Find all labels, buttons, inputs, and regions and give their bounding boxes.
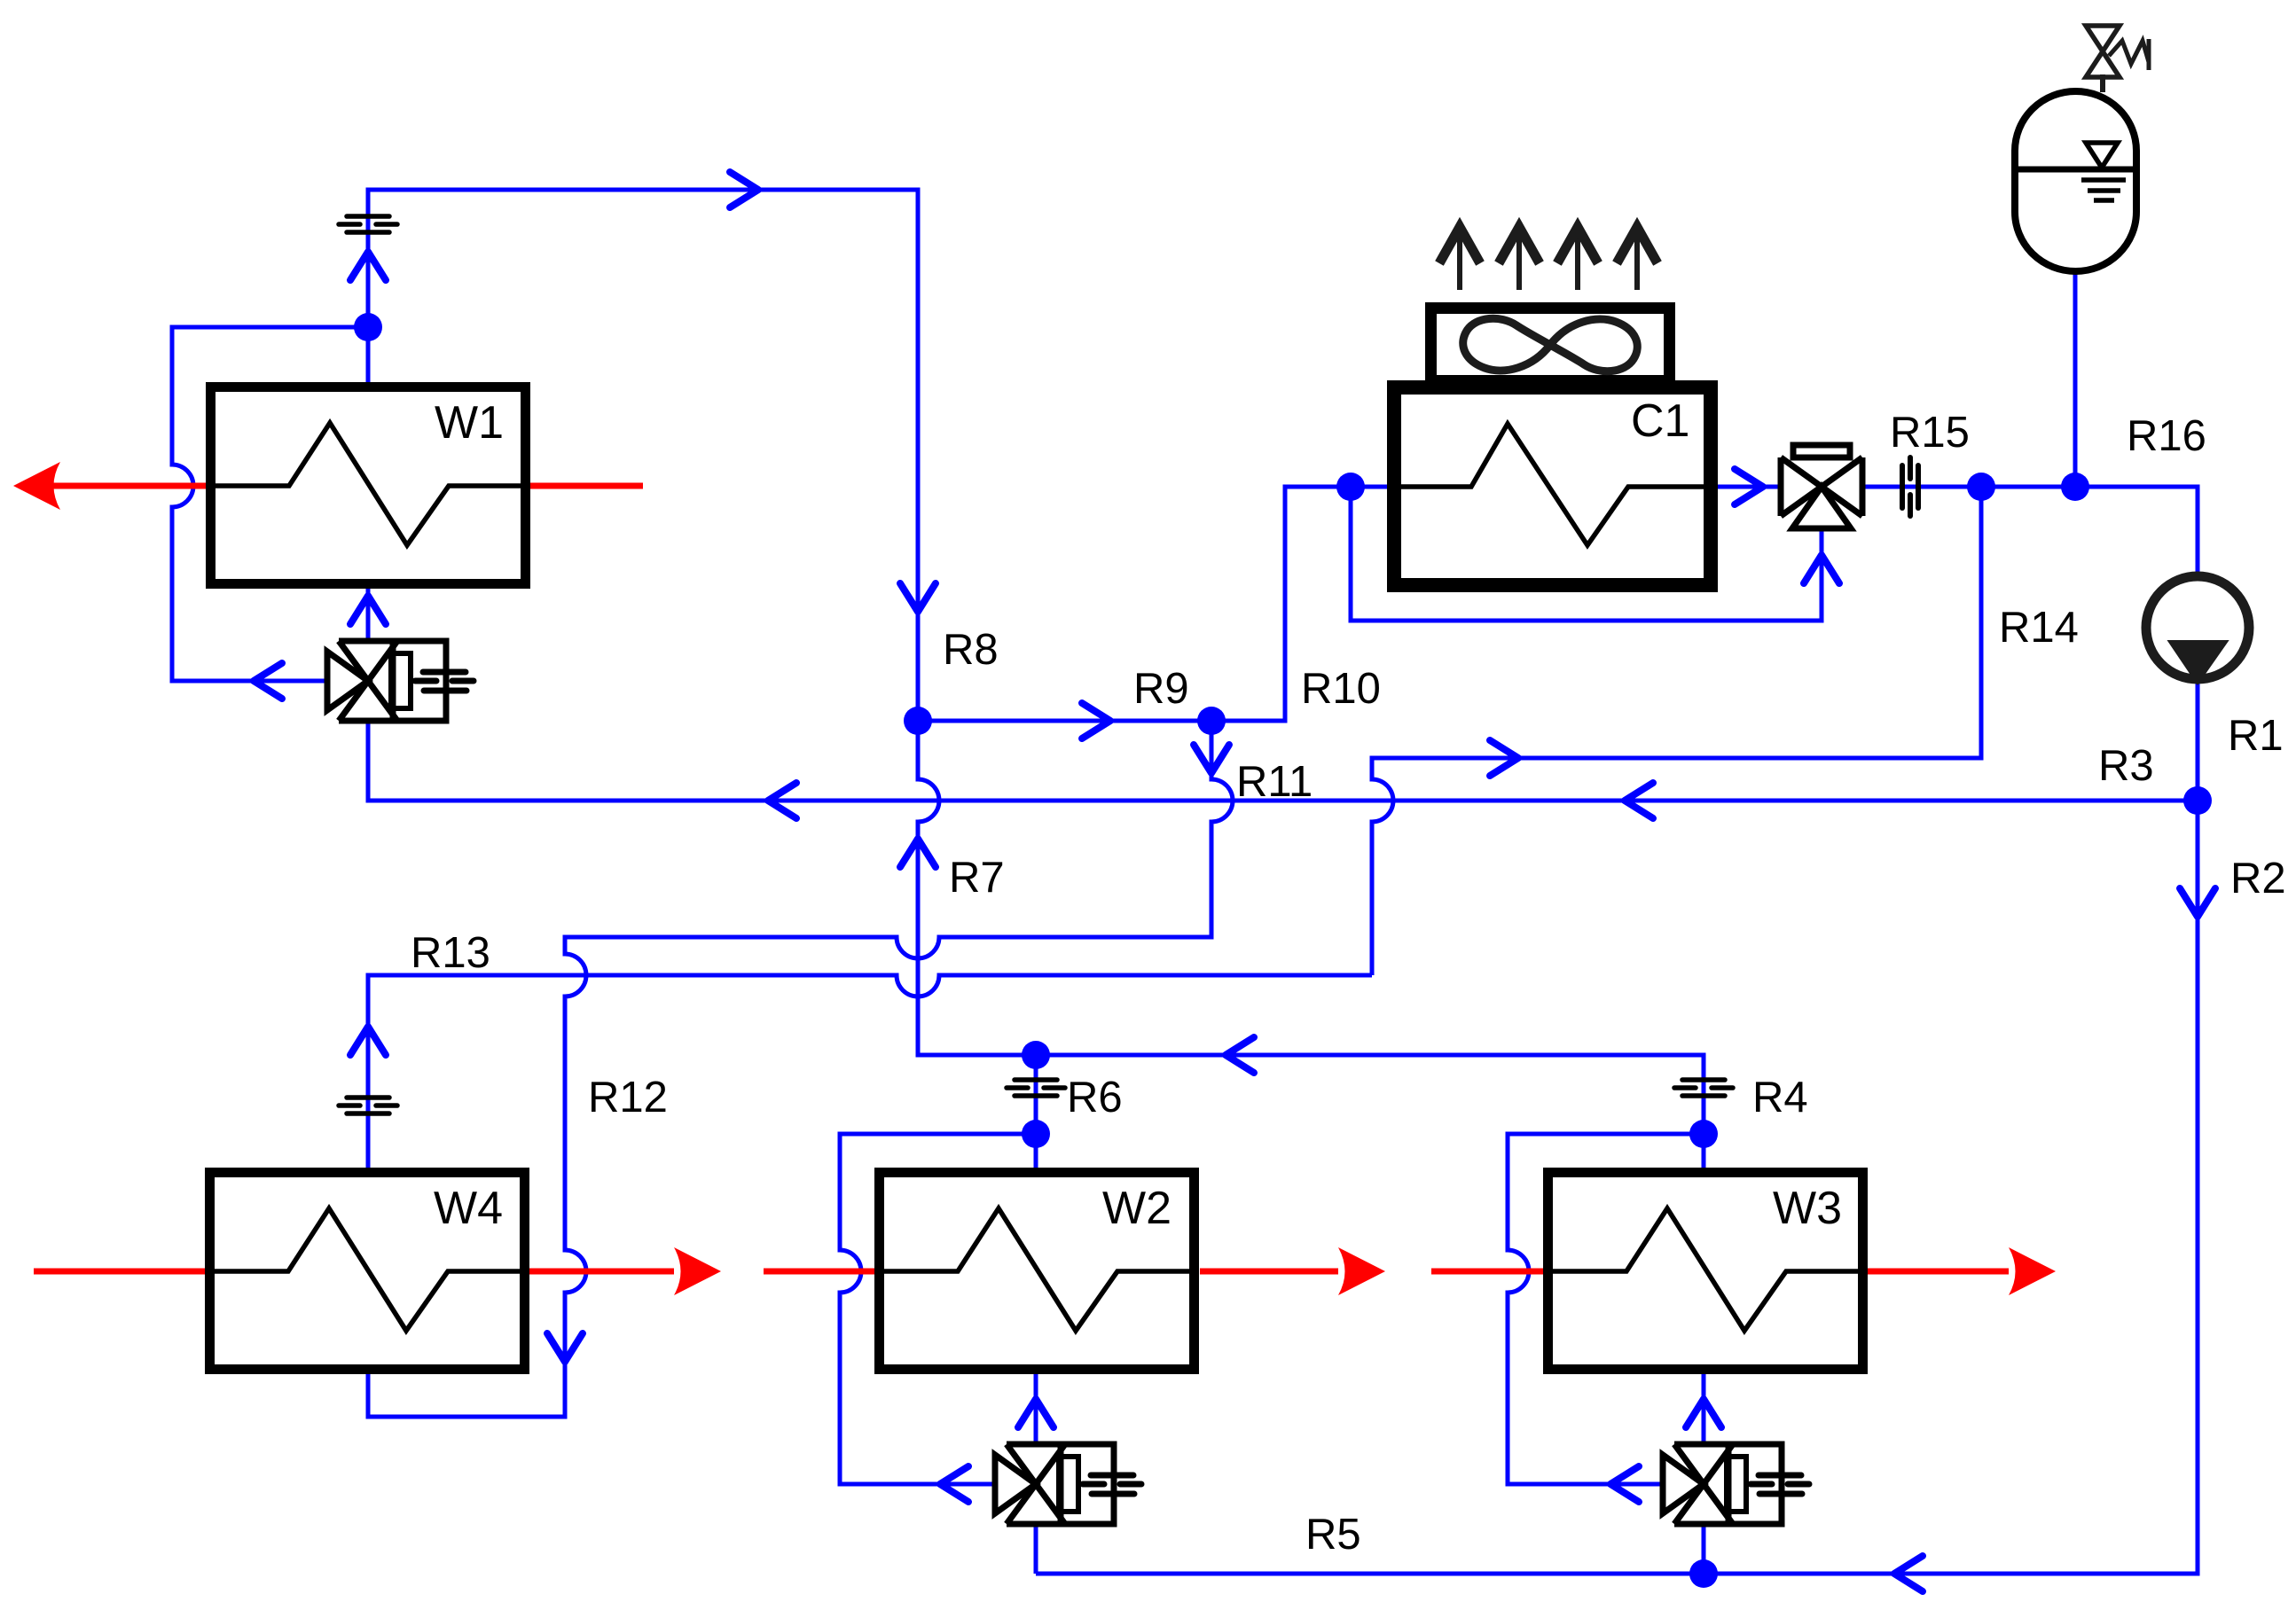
svg-text:R5: R5 (1305, 1511, 1361, 1559)
red flow line W4 secondary (34, 1247, 721, 1295)
pipe break symbol R15 (1902, 457, 1918, 516)
wire W3 valve top stub (1702, 1372, 1706, 1444)
air vent R6 on W2 riser (1007, 1080, 1065, 1096)
label R1 (2228, 712, 2284, 760)
node R6 junction (1022, 1041, 1050, 1069)
node W2 riser junction (1022, 1120, 1050, 1148)
svg-text:R11: R11 (1236, 758, 1313, 806)
svg-text:R6: R6 (1067, 1074, 1123, 1121)
cooler C1 (1394, 387, 1711, 585)
svg-text:R15: R15 (1890, 409, 1970, 457)
flow arrow down on R12 (547, 1333, 583, 1362)
heat discharge arrows above C1 (1439, 227, 1657, 290)
heat exchanger W1 (211, 387, 526, 584)
node R8-R9 junction (904, 707, 932, 735)
heat exchanger W3 (1548, 1173, 1863, 1370)
air vent R4 on W3 riser (1674, 1080, 1733, 1096)
flow arrow left on R6 header (1226, 1037, 1254, 1073)
flow arrow up into W3 (1686, 1399, 1721, 1427)
svg-text:R4: R4 (1752, 1074, 1808, 1121)
svg-text:R1: R1 (2228, 712, 2284, 760)
air vent on W1 outlet riser (339, 216, 397, 232)
3-way mixing valve of W3 (1663, 1444, 1809, 1524)
wire W1 valve top stub (366, 589, 371, 641)
svg-text:R3: R3 (2098, 742, 2154, 790)
3-way mixing valve of W2 (995, 1444, 1141, 1524)
node W1 outlet junction (354, 313, 382, 341)
label R12 (588, 1074, 668, 1121)
flow arrow up on W4 riser (350, 1027, 386, 1055)
label R14 (1999, 604, 2079, 652)
wire W2 valve bottom stub (1034, 1524, 1038, 1574)
flow arrow left on R3 east (1625, 783, 1653, 818)
air vent on W4 riser (339, 1098, 397, 1114)
wire W2 riser (1034, 1055, 1038, 1168)
wire W3 valve bypass loop (1508, 1134, 1704, 1484)
wire R14 (1372, 487, 1981, 975)
svg-text:R8: R8 (943, 626, 999, 674)
wire W1 valve bottom stub (366, 721, 371, 801)
flow arrow left on W2 bypass (940, 1466, 968, 1502)
wire W2 valve bypass loop (840, 1134, 1036, 1484)
node R9-R10-R11 junction (1197, 707, 1226, 735)
flow arrow up into valve R15 (1804, 555, 1839, 583)
safety valve on expansion vessel (2086, 26, 2149, 92)
label R15 (1890, 409, 1970, 457)
red flow line W2 secondary (764, 1247, 1385, 1295)
flow arrow right on R14 (1490, 740, 1518, 776)
flow arrow left on W3 bypass (1610, 1466, 1639, 1502)
red flow line W3 secondary (1431, 1247, 2056, 1295)
svg-text:R7: R7 (949, 854, 1005, 902)
label R4 (1752, 1074, 1808, 1121)
fan of cooler C1 (1431, 309, 1670, 381)
flow arrow down on R8 (900, 583, 936, 612)
3-way mixing valve of W1 (327, 641, 474, 721)
svg-text:R13: R13 (411, 929, 490, 977)
label R13 (411, 929, 490, 977)
label R7 (949, 854, 1005, 902)
wire W1 outlet riser and top header to R8 (368, 190, 918, 721)
node W3 riser junction (1689, 1120, 1718, 1148)
svg-text:W4: W4 (434, 1183, 503, 1234)
wire R15 run to expansion connection (1862, 485, 2075, 489)
svg-text:R12: R12 (588, 1074, 668, 1121)
heat exchanger W2 (880, 1173, 1195, 1370)
wire R10 to cooler C1 inlet (1211, 487, 1398, 721)
flow arrow right on top header (730, 172, 758, 207)
wire R3 return header to W1 valve (368, 722, 2198, 801)
svg-text:W3: W3 (1773, 1183, 1842, 1234)
node expansion vessel junction (2061, 473, 2089, 501)
svg-text:W1: W1 (435, 397, 504, 449)
svg-text:R2: R2 (2230, 855, 2286, 903)
svg-text:R16: R16 (2127, 412, 2206, 460)
flow arrow right at C1 outlet (1735, 469, 1763, 504)
wire C1 outlet to valve R15 (1711, 485, 1781, 489)
wire R13 to W4 inlet riser (368, 975, 1372, 1168)
flow arrow left on W1 bypass (254, 663, 282, 699)
svg-text:R14: R14 (1999, 604, 2079, 652)
3-way valve R15 after cooler (1781, 445, 1862, 528)
wire R16 and pump leg R1 (2075, 487, 2198, 801)
label R5 (1305, 1511, 1361, 1559)
expansion vessel (2015, 91, 2136, 271)
svg-text:R10: R10 (1301, 665, 1381, 713)
node R14 junction (1967, 473, 1995, 501)
wire W1 valve bypass loop (172, 327, 368, 681)
flow arrow left on R3 west (768, 783, 796, 818)
circulation pump R1 (2146, 576, 2249, 679)
label R6 (1067, 1074, 1123, 1121)
node C1 inlet junction (1336, 473, 1365, 501)
label R2 (2230, 855, 2286, 903)
wire R2 and R5 bottom header (1036, 801, 2198, 1574)
svg-text:C1: C1 (1631, 395, 1689, 447)
flow arrow right on R9 (1082, 703, 1110, 738)
wire W3 valve bottom stub (1702, 1524, 1706, 1574)
flow arrow up on W1 outlet riser (350, 252, 386, 280)
label R8 (943, 626, 999, 674)
label R9 (1133, 665, 1189, 713)
red flow line W1 secondary (13, 462, 643, 510)
label R10 (1301, 665, 1381, 713)
wire W2 valve top stub (1034, 1372, 1038, 1444)
node pump discharge junction (2183, 786, 2212, 815)
flow arrow down on R11 (1194, 745, 1229, 773)
flow arrow down on R2 (2180, 888, 2215, 917)
wire expansion vessel drop (2073, 271, 2078, 487)
label R3 (2098, 742, 2154, 790)
flow arrow up into W1 (350, 596, 386, 624)
label R11 (1236, 758, 1313, 806)
wire R9 (918, 719, 1211, 723)
flow arrow up into W2 (1018, 1399, 1054, 1427)
heat exchanger W4 (210, 1173, 525, 1370)
svg-text:R9: R9 (1133, 665, 1189, 713)
node R5 junction (1689, 1559, 1718, 1588)
label R16 (2127, 412, 2206, 460)
svg-text:W2: W2 (1102, 1183, 1172, 1234)
flow arrow up on R7 (900, 839, 936, 867)
wire R11 R12 supply to W4 (368, 721, 1233, 1417)
wire C1 bypass to valve R15 bottom (1351, 487, 1822, 621)
flow arrow left on R5 (1894, 1556, 1923, 1591)
wire R7 riser and R6 header (918, 721, 1704, 1168)
